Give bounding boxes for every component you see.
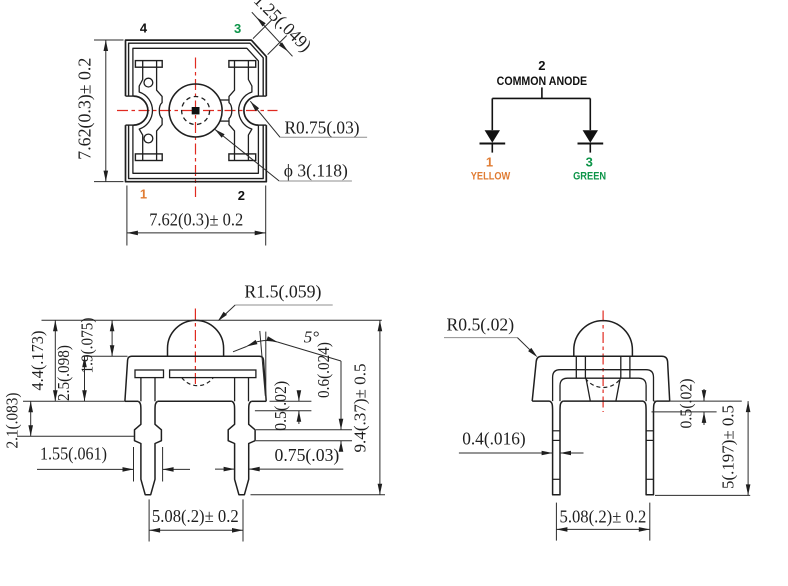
svg-text:0.75(.03): 0.75(.03) <box>275 445 340 466</box>
svg-text:4.4(.173): 4.4(.173) <box>28 331 47 391</box>
svg-text:2.1(.083): 2.1(.083) <box>3 393 22 449</box>
svg-text:R0.5(.02): R0.5(.02) <box>447 315 515 336</box>
svg-text:5.08(.2)± 0.2: 5.08(.2)± 0.2 <box>560 507 647 528</box>
svg-text:1.9(.075): 1.9(.075) <box>77 318 96 374</box>
svg-text:5.08(.2)± 0.2: 5.08(.2)± 0.2 <box>152 506 239 527</box>
svg-text:4: 4 <box>140 21 148 36</box>
svg-text:0.4(.016): 0.4(.016) <box>462 429 526 450</box>
svg-text:YELLOW: YELLOW <box>471 171 511 183</box>
svg-text:COMMON ANODE: COMMON ANODE <box>497 74 588 88</box>
svg-text:R1.5(.059): R1.5(.059) <box>244 281 321 302</box>
svg-text:1.55(.061): 1.55(.061) <box>40 444 107 465</box>
svg-text:2.5(.098): 2.5(.098) <box>54 345 73 401</box>
svg-text:0.6(.024): 0.6(.024) <box>314 342 333 398</box>
svg-text:1: 1 <box>140 187 147 202</box>
svg-text:7.62(0.3)± 0.2: 7.62(0.3)± 0.2 <box>75 58 96 160</box>
svg-text:ϕ 3(.118): ϕ 3(.118) <box>284 161 348 182</box>
svg-text:3: 3 <box>586 154 593 169</box>
svg-text:5(.197)± 0.5: 5(.197)± 0.5 <box>718 405 737 489</box>
svg-text:2: 2 <box>538 58 545 73</box>
svg-text:9.4(.37)± 0.5: 9.4(.37)± 0.5 <box>351 364 370 453</box>
svg-text:0.5(.02): 0.5(.02) <box>271 381 290 431</box>
svg-text:3: 3 <box>234 21 241 36</box>
svg-text:2: 2 <box>238 188 245 203</box>
svg-text:7.62(0.3)± 0.2: 7.62(0.3)± 0.2 <box>149 210 243 231</box>
svg-text:0.5(.02): 0.5(.02) <box>677 379 696 429</box>
svg-text:1: 1 <box>486 154 493 169</box>
svg-text:GREEN: GREEN <box>573 171 606 183</box>
svg-text:R0.75(.03): R0.75(.03) <box>285 117 360 138</box>
